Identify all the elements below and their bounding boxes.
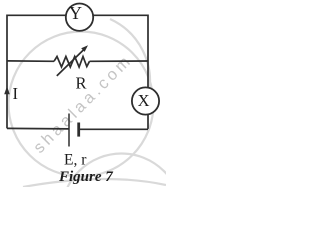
svg-text:E, r: E, r [64, 152, 87, 169]
svg-text:shaalaa.com: shaalaa.com [30, 51, 136, 157]
svg-text:I: I [13, 84, 19, 103]
svg-text:Y: Y [69, 3, 82, 23]
svg-text:R: R [75, 74, 86, 93]
svg-text:X: X [138, 91, 150, 110]
svg-text:Figure 7: Figure 7 [58, 169, 113, 185]
